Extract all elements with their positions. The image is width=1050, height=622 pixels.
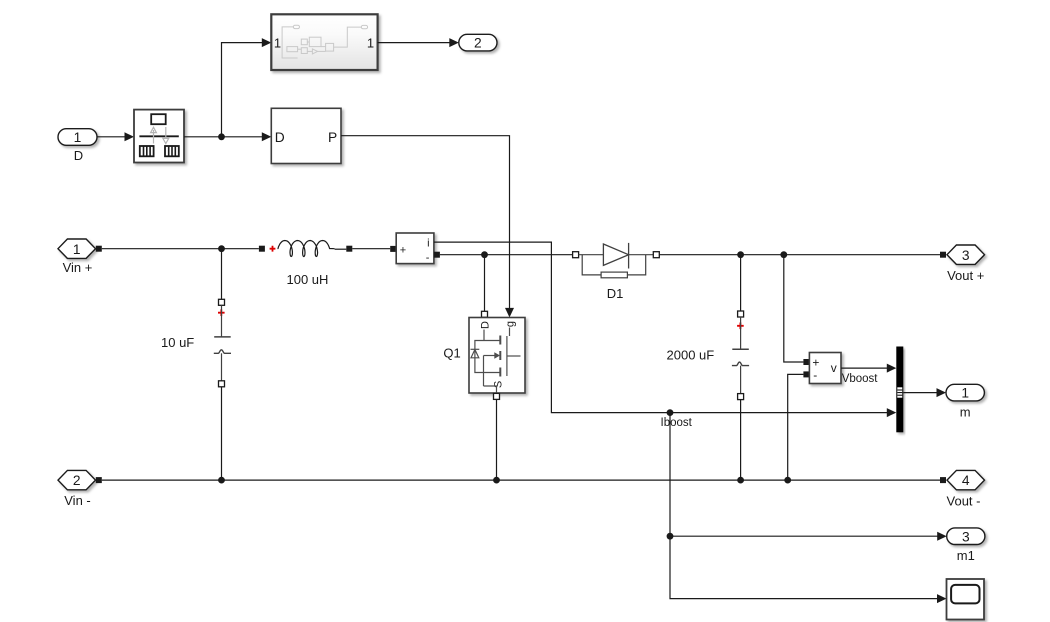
svg-text:1: 1 bbox=[367, 36, 374, 51]
outport m1 bbox=[947, 528, 985, 563]
svg-text:-: - bbox=[426, 252, 430, 264]
junction dot cap 2000uF tap bbox=[737, 251, 744, 258]
wire down to Q1 drain bbox=[484, 255, 486, 312]
svg-text:2: 2 bbox=[73, 473, 81, 488]
wire rate transition to DP block bbox=[184, 132, 271, 141]
wire v output to mux bbox=[841, 364, 896, 373]
subsystem block bbox=[271, 14, 377, 70]
svg-text:2: 2 bbox=[474, 36, 482, 51]
svg-text:Vout +: Vout + bbox=[947, 268, 984, 283]
outport Vout- bbox=[940, 470, 985, 508]
wire to scope bbox=[670, 536, 947, 603]
svg-text:D: D bbox=[479, 321, 491, 329]
svg-text:4: 4 bbox=[962, 473, 970, 488]
svg-text:D1: D1 bbox=[607, 286, 624, 301]
wire mux to outport m bbox=[903, 388, 946, 397]
svg-text:1: 1 bbox=[961, 386, 969, 401]
voltage sensor block bbox=[803, 353, 878, 386]
wire i signal to mux (Iboost) bbox=[434, 242, 896, 417]
svg-text:Vin +: Vin + bbox=[63, 260, 93, 275]
svg-text:Vin -: Vin - bbox=[64, 493, 91, 508]
svg-text:i: i bbox=[427, 238, 429, 250]
bottom rail wire bbox=[102, 479, 940, 481]
wire P to Q1 gate bbox=[341, 136, 514, 318]
inport Vin+ bbox=[58, 239, 102, 275]
wire inductor to current sensor bbox=[352, 248, 390, 250]
svg-text:Q1: Q1 bbox=[443, 346, 460, 361]
diode D1 bbox=[573, 243, 660, 301]
inport Vin- bbox=[58, 470, 102, 508]
svg-text:100 uH: 100 uH bbox=[287, 272, 329, 287]
capacitor C1 10uF bbox=[161, 249, 231, 480]
junction dot Iboost bbox=[667, 409, 674, 416]
junction dot at 10uF tap bbox=[218, 245, 225, 252]
outport Vout+ bbox=[940, 245, 985, 283]
junction dot Q1 drain tap bbox=[481, 251, 488, 258]
rate transition block bbox=[134, 110, 184, 163]
mosfet Q1 bbox=[443, 311, 525, 399]
svg-text:-: - bbox=[813, 368, 817, 382]
svg-text:1: 1 bbox=[73, 242, 81, 257]
wire Vout+ tap to voltage sensor + bbox=[784, 255, 804, 362]
wire Vin+ to inductor bbox=[102, 248, 259, 250]
svg-text:Vboost: Vboost bbox=[842, 373, 879, 385]
outport 2 bbox=[459, 34, 497, 51]
wire Iboost to m1 bbox=[670, 413, 947, 541]
svg-text:3: 3 bbox=[962, 529, 970, 544]
wire voltage sensor - to rail bbox=[788, 374, 804, 480]
junction dot Vboost+ tap bbox=[780, 251, 787, 258]
svg-text:D: D bbox=[275, 130, 285, 145]
svg-text:v: v bbox=[831, 361, 837, 375]
capacitor C2 2000uF bbox=[667, 255, 750, 480]
svg-text:g: g bbox=[505, 321, 517, 327]
svg-text:m: m bbox=[960, 405, 971, 420]
svg-text:3: 3 bbox=[962, 248, 970, 263]
wire D to rate transition bbox=[97, 132, 134, 141]
svg-text:1: 1 bbox=[74, 130, 82, 145]
junction dot bbox=[218, 133, 225, 140]
svg-text:m1: m1 bbox=[957, 548, 975, 563]
svg-text:Iboost: Iboost bbox=[661, 417, 693, 429]
svg-text:D: D bbox=[74, 148, 83, 163]
wire subsystem to outport 2 bbox=[378, 38, 459, 47]
svg-text:+: + bbox=[400, 244, 406, 256]
wire sensor minus to diode bbox=[440, 254, 573, 256]
current sensor block bbox=[390, 233, 440, 264]
outport m bbox=[946, 384, 984, 419]
svg-text:S: S bbox=[493, 381, 505, 388]
wire junction up to subsystem bbox=[222, 38, 272, 137]
svg-text:1: 1 bbox=[274, 36, 281, 51]
svg-text:P: P bbox=[328, 130, 337, 145]
wire Q1 source to rail bbox=[496, 399, 498, 480]
junction dots on rail bbox=[218, 477, 791, 484]
junction dot m1 branch bbox=[667, 533, 674, 540]
inport D bbox=[58, 129, 97, 163]
DP block bbox=[271, 108, 341, 163]
wire diode to Vout+ bbox=[659, 254, 940, 256]
svg-text:2000 uF: 2000 uF bbox=[667, 348, 715, 363]
scope block bbox=[947, 579, 985, 620]
mux bbox=[896, 347, 903, 433]
inductor L1 100uH bbox=[259, 241, 352, 288]
svg-text:10 uF: 10 uF bbox=[161, 335, 194, 350]
svg-text:Vout -: Vout - bbox=[947, 494, 981, 509]
